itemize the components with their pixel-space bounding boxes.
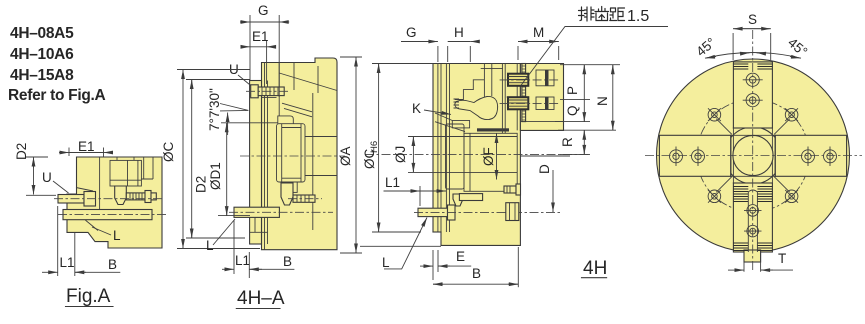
body bottom ext (360, 245, 441, 247)
svg-text:Fig.A: Fig.A (66, 286, 111, 307)
svg-text:4H–08A5: 4H–08A5 (10, 25, 74, 42)
dim M (518, 46, 559, 60)
top stud U (251, 85, 259, 98)
small parts below (453, 194, 463, 206)
svg-text:T: T (778, 251, 786, 266)
svg-text:L: L (206, 238, 214, 253)
dim G (250, 15, 279, 97)
center cross square (731, 128, 775, 183)
main body (433, 64, 520, 246)
serrations on jaw face (522, 64, 526, 122)
serration callout hanzi (drawn strokes) (579, 7, 625, 22)
svg-text:R: R (560, 137, 575, 147)
dim C H6 (362, 141, 380, 169)
svg-text:ØA: ØA (338, 146, 353, 166)
bottom plug and screw (281, 183, 293, 205)
svg-text:G: G (406, 25, 417, 40)
svg-text:B: B (472, 266, 481, 281)
svg-text:4H–15A8: 4H–15A8 (10, 67, 74, 84)
svg-text:D2: D2 (194, 176, 209, 193)
jaw (278, 116, 294, 124)
svg-text:E: E (456, 249, 465, 264)
svg-text:L: L (382, 255, 390, 270)
排 (579, 7, 585, 21)
main axis (365, 153, 590, 155)
top wedge detail (262, 63, 280, 116)
right block (520, 64, 563, 131)
svg-text:4H–10A6: 4H–10A6 (10, 46, 74, 63)
svg-text:B: B (283, 254, 292, 269)
dim T (728, 269, 744, 271)
plug (115, 186, 127, 205)
svg-text:4H: 4H (583, 258, 607, 279)
bore lines (305, 137, 337, 176)
svg-text:Refer to Fig.A: Refer to Fig.A (8, 87, 106, 104)
svg-text:7°7'30": 7°7'30" (207, 88, 222, 131)
T slot below (744, 252, 761, 272)
dim E1 (69, 148, 104, 158)
chuck body circle (657, 59, 850, 252)
dim L1 (58, 206, 75, 276)
svg-text:4H–A: 4H–A (237, 288, 285, 309)
dim P Q (583, 65, 585, 72)
bottom jaw bolts (744, 205, 762, 237)
dim R (583, 130, 585, 137)
svg-text:Q: Q (565, 105, 580, 116)
adapter strip (250, 81, 262, 245)
svg-text:M: M (533, 25, 544, 40)
left jaw block (446, 124, 465, 189)
svg-text:S: S (748, 12, 757, 27)
svg-text:L1: L1 (385, 175, 400, 190)
bolt circle (697, 99, 809, 211)
body inner verticals (502, 64, 517, 134)
bushing (506, 203, 519, 221)
dim B (75, 271, 121, 273)
bottom bar (234, 207, 279, 217)
dim G H (438, 46, 470, 62)
svg-text:ØF: ØF (481, 147, 496, 166)
svg-text:G: G (258, 3, 269, 18)
diagonal pocket lines (716, 119, 790, 193)
top jaw bolts (743, 73, 763, 107)
svg-text:H: H (454, 25, 464, 40)
svg-text:L: L (113, 228, 121, 243)
center boss circle (733, 135, 773, 175)
bore (441, 137, 517, 173)
bottom stud (418, 208, 448, 216)
bolt 1 (508, 74, 528, 86)
t-nut pockets (536, 70, 554, 86)
svg-text:E1: E1 (78, 139, 95, 154)
interior top detail (99, 157, 101, 210)
faceplate verticals (438, 64, 441, 246)
right jaw (775, 135, 846, 176)
rod U (58, 195, 84, 204)
svg-text:1.5: 1.5 (627, 8, 649, 25)
bottom jaw serrations (733, 187, 772, 251)
dim B (517, 247, 519, 287)
svg-text:E1: E1 (252, 29, 269, 44)
rod axis (54, 198, 162, 200)
svg-text:L1: L1 (235, 253, 250, 268)
left jaw (659, 135, 730, 176)
dim L1 (234, 220, 249, 278)
dim E1 (266, 40, 268, 84)
svg-text:B: B (108, 257, 117, 272)
centerlines (645, 155, 862, 157)
齿 (595, 7, 609, 12)
dim S (733, 33, 771, 60)
top jaw serrations (733, 64, 772, 69)
T tab below circle (744, 250, 761, 262)
svg-text:K: K (412, 101, 421, 116)
wedge mechanism (446, 64, 449, 233)
small lock screw (504, 186, 516, 193)
jaw seat dark bar (477, 128, 509, 131)
距 (610, 8, 617, 21)
right jaw bolts (802, 147, 837, 167)
svg-text:ØC: ØC (161, 141, 176, 162)
svg-text:D: D (537, 164, 552, 174)
left jaw bolts (670, 147, 705, 167)
side screw (126, 193, 156, 200)
dim E (433, 250, 438, 280)
body (67, 157, 162, 248)
dim B (249, 268, 294, 270)
svg-text:U: U (42, 170, 52, 185)
center boss outer circle (725, 127, 782, 184)
svg-text:P: P (565, 86, 580, 95)
body main (262, 58, 338, 250)
svg-text:ØD1: ØD1 (208, 162, 223, 190)
45 deg arc (705, 53, 801, 59)
dim N (612, 65, 614, 72)
right ext lines (555, 65, 620, 155)
bolt axis (240, 155, 345, 157)
bolt 2 (508, 97, 528, 109)
svg-text:45°: 45° (693, 35, 718, 60)
lower bar (63, 210, 152, 220)
45 deg mounting holes (708, 108, 798, 202)
bottom jaw slot (748, 190, 757, 252)
top jaw (733, 62, 772, 128)
bottom jaw (733, 183, 772, 252)
wedge lever (455, 96, 498, 119)
svg-text:L1: L1 (60, 255, 75, 270)
svg-text:ØJ: ØJ (393, 146, 408, 163)
svg-text:N: N (595, 96, 610, 106)
interior verticals (265, 63, 313, 250)
